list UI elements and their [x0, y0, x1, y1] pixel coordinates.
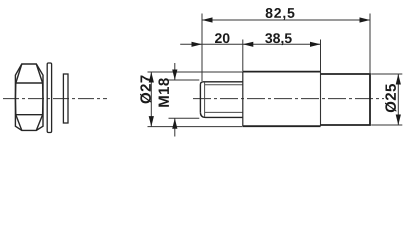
extension line x242.8: [242, 40, 244, 72]
dimension 20: [180, 33, 320, 47]
dimension M18: [158, 63, 199, 137]
extension line x369.6: [369, 14, 371, 75]
hex nut: [15, 64, 43, 130]
body Ø25 section: [321, 74, 371, 125]
body Ø27 section: [243, 72, 321, 127]
spacer ring: [63, 74, 68, 123]
thread chamfer edge: [204, 82, 206, 117]
dimension Ø25: [371, 74, 402, 125]
dimension Ø27: [140, 72, 242, 127]
dimension 82,5: [202, 8, 370, 23]
dimension 38,5: [265, 33, 320, 47]
center line body: [193, 98, 384, 100]
extension line x320.5: [320, 40, 322, 74]
thread M18 section: [200, 82, 242, 118]
extension line x202: [201, 14, 203, 82]
center line left group: [3, 98, 107, 100]
thread root lines: [205, 85, 243, 113]
body left edge: [242, 72, 244, 127]
washer: [47, 63, 51, 133]
step edge: [320, 72, 322, 127]
